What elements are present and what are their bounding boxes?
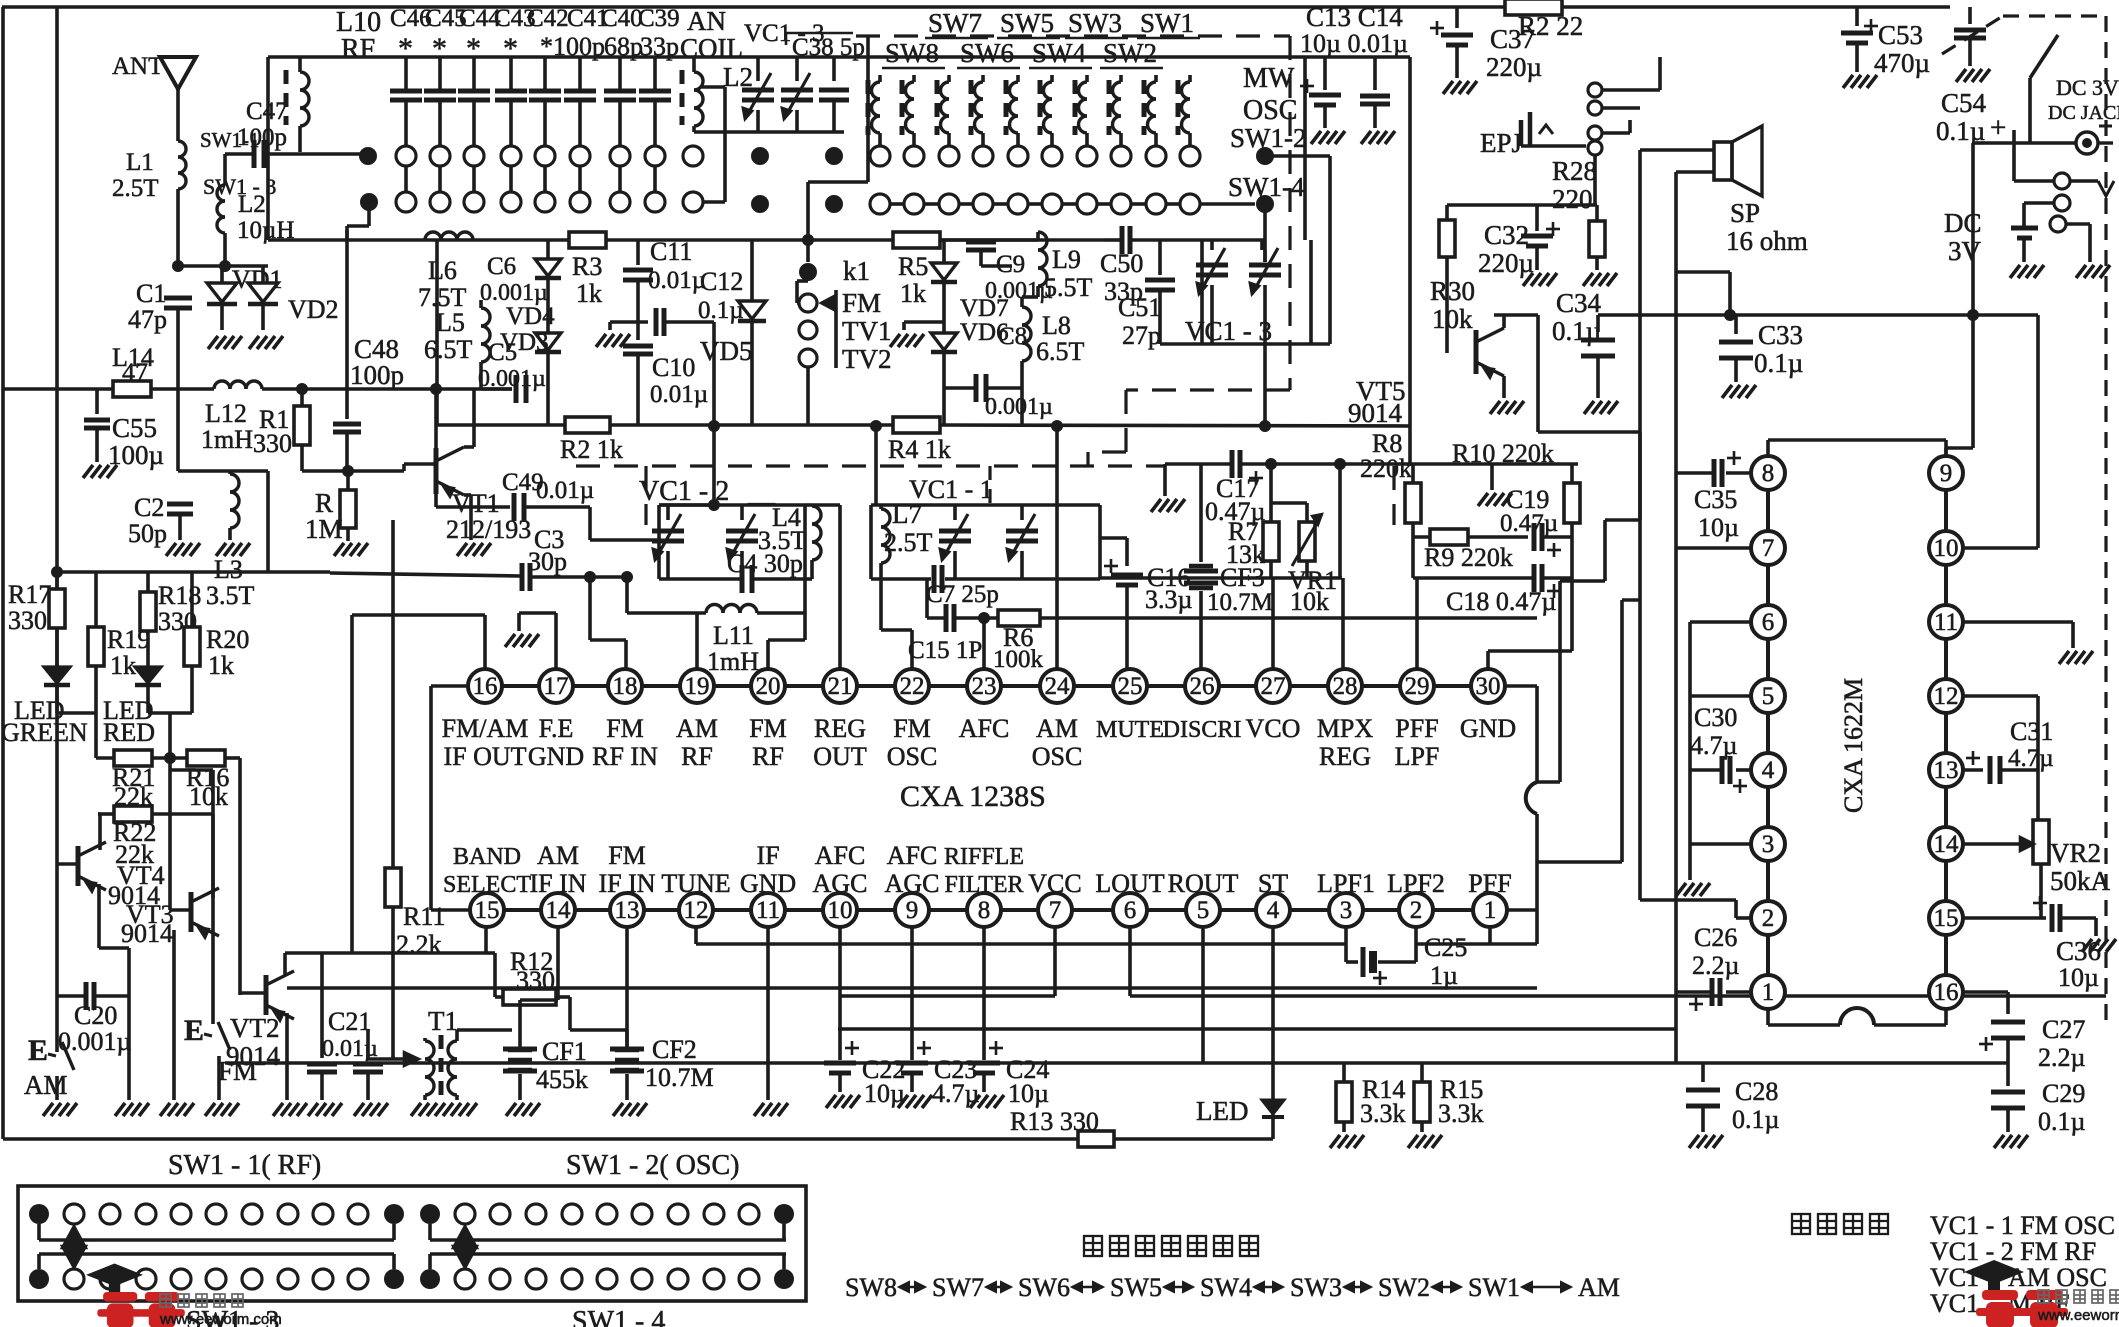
svg-text:3V: 3V [1948,236,1982,266]
svg-text:L8: L8 [1042,311,1071,340]
svg-text:BAND: BAND [453,844,521,870]
svg-text:0.01µ: 0.01µ [536,477,594,504]
capacitor C1 47p [164,296,192,301]
switch contact C42 row1 [535,146,555,166]
wire vc13 bottom [1160,342,1330,346]
svg-text:RF: RF [341,34,375,65]
wire switch box mid1a [39,1238,394,1242]
svg-text:TUNE: TUNE [661,869,730,898]
resistor R13 330 [1078,1131,1114,1147]
svg-text:13: 13 [615,897,640,924]
switch box contact r1c19 [668,1204,688,1224]
svg-text:IF IN: IF IN [598,869,655,898]
inductor SW7 coil [900,80,905,135]
switch box dot r2c22 [774,1269,794,1289]
svg-text:C20: C20 [74,1001,117,1030]
wire k1 arm line [834,290,838,368]
svg-text:SW2: SW2 [1378,1273,1430,1302]
ground C17 left [1163,464,1167,496]
switch box dot r2c11 [384,1269,404,1289]
capacitor C31 4.7u [1963,768,1983,772]
ground C53 [1843,75,1853,88]
wire y578 row [1100,576,1342,580]
svg-text:16: 16 [473,673,498,700]
svg-text:TV2: TV2 [842,344,892,374]
svg-text:SW4: SW4 [1032,38,1087,68]
svg-text:10k: 10k [1432,304,1473,334]
wire pin23 feed [982,618,986,669]
wire pin18 jog [588,577,592,640]
switch box dot r1c1 [29,1204,49,1224]
capacitor C35 10u [1726,471,1751,475]
svg-text:REG: REG [814,714,866,743]
node R7 top junction [1265,458,1277,470]
svg-text:GND: GND [740,869,796,898]
wire dashed step [1126,388,1290,391]
wire collector node down to C49 [434,389,438,449]
capacitor C44 [472,57,476,91]
node VT1 base junction [342,465,354,477]
svg-text:R10 220k: R10 220k [1452,439,1554,468]
resistor R4 1k [893,417,940,433]
watermark logo bottom-left [86,1264,185,1327]
svg-text:C11: C11 [650,237,692,266]
svg-text:15: 15 [1934,905,1959,932]
svg-text:GREEN: GREEN [1,718,88,747]
wire VC1-3 box [1200,240,1204,344]
wire pin13 drop [625,927,629,1047]
resistor R11 2.2k [385,868,401,907]
node junction antenna-VD [219,260,231,272]
wire k1 lever [797,279,808,283]
jack EPJ contacts [1588,101,1602,115]
wire C40 inter-row [618,166,622,192]
wire stub c1 [37,1224,41,1240]
switch box dot r2c1 [29,1269,49,1289]
ground C32 [1523,273,1533,286]
svg-text:0.01µ: 0.01µ [648,267,706,294]
switch box contact r1c4 [136,1204,156,1224]
wire pin29 feed [1415,578,1419,669]
wire left border [1,7,5,1139]
svg-text:R13 330: R13 330 [1010,1107,1099,1136]
wire L11 row [627,611,706,615]
wire C44 inter-row [472,166,476,192]
IC pin 27 [1256,669,1290,703]
svg-text:VD2: VD2 [288,295,339,324]
svg-text:10µ 0.01µ: 10µ 0.01µ [1300,29,1408,58]
wire R19 col down [94,713,98,758]
capacitor C17 0.47u [1230,450,1235,478]
ground battery [2010,265,2020,278]
svg-text:R28: R28 [1552,156,1597,186]
svg-text:10k: 10k [1290,587,1329,616]
transistor VT4 9014 [76,846,81,886]
wire jack c3 right [2066,222,2090,226]
node x1340 junction [1334,458,1346,470]
capacitor T1 input cap [366,1030,370,1058]
varcap VC1-1b [1020,505,1024,520]
wire pin19 feed [695,613,699,669]
svg-text:6.5T: 6.5T [424,335,473,364]
svg-text:LOUT: LOUT [1095,869,1164,898]
svg-text:16 ohm: 16 ohm [1726,226,1808,256]
svg-text:1: 1 [1762,979,1775,1006]
switch contact row2 [939,194,959,214]
svg-text:16: 16 [1934,979,1959,1006]
wire pin11 drop [766,927,770,1100]
svg-text:1mH: 1mH [707,647,759,676]
wire rail y205 [1447,203,1597,207]
capacitor C7 25p [932,565,937,593]
svg-text:3.3µ: 3.3µ [1145,585,1193,614]
wire pin12 drop [694,927,698,944]
inductor L14 47 (bead) [113,381,151,397]
svg-text:4: 4 [1762,757,1775,784]
resistor R14 3.3k [1342,1063,1346,1082]
switch contact C45 row2 [430,192,450,212]
resistor R28 220 body [1595,205,1599,221]
wire C39 inter-row [653,166,657,192]
svg-text:SW1-1: SW1-1 [200,128,260,152]
IC pin 6 (1622M) [1751,605,1785,639]
node VT1 rail junction [430,383,442,395]
switch box contact r1c2 [64,1204,84,1224]
wire long rail y1029 [838,1027,1676,1031]
svg-text:L1: L1 [126,149,154,176]
wire VT2 base [240,991,266,995]
ground C24 [970,1095,980,1108]
svg-text:AFC: AFC [887,841,938,870]
svg-text:FM: FM [749,714,787,743]
switch k1 TV2 contact [799,349,817,367]
svg-text:100k: 100k [993,646,1044,673]
ground VT3 emitter [160,1103,170,1116]
capacitor C43 [509,57,513,91]
ground VD1 [208,336,218,349]
switch box contact r1c17 [597,1204,617,1224]
svg-text:15: 15 [475,897,500,924]
svg-text:SW1 - 2( OSC): SW1 - 2( OSC) [566,1150,739,1181]
svg-text:www.eeworm.com: www.eeworm.com [159,1311,282,1327]
IC pin 15 (1622M) [1929,901,1963,935]
ground C36 [2082,939,2092,952]
wire pin6 drop [1128,927,1132,996]
wire VT4 base [57,862,78,866]
svg-text:0.01µ: 0.01µ [650,381,708,408]
svg-text:455k: 455k [536,1065,588,1094]
resistor R6 100k [998,610,1040,626]
switch contact C41 row2 [570,192,590,212]
capacitor C4 [740,565,745,593]
capacitor C23 4.7u [910,1055,914,1060]
switch contact C42 row2 [535,192,555,212]
svg-text:26: 26 [1190,673,1215,700]
svg-text:SW1 - 1( RF): SW1 - 1( RF) [168,1150,321,1181]
wire pin20 feed [803,613,807,640]
svg-text:68p: 68p [604,32,643,61]
wire pin5 drop [1201,927,1205,1063]
wire L11 left drop [625,577,629,613]
switch box contact r2c6 [206,1269,226,1289]
svg-text:CF2: CF2 [652,1035,697,1064]
svg-text:SP: SP [1730,198,1760,228]
capacitor C13 10u [1323,57,1327,90]
resistor R3 1k [569,232,606,248]
svg-text:50kA: 50kA [2050,866,2111,896]
wire VC1-2 left feed [659,503,714,507]
svg-text:IF OUT: IF OUT [443,742,526,771]
svg-text:0.001µ: 0.001µ [58,1027,132,1056]
switch contact row2 [1111,194,1131,214]
transformer T1 primary [425,1041,434,1059]
switch box contact r1c21 [739,1204,759,1224]
svg-text:GND: GND [528,742,584,771]
IC pin 28 [1328,669,1362,703]
node matrix dot r1c1 [751,147,769,165]
inductor SW5 coil [969,80,974,135]
wire SW1-2 to osc [1265,154,1330,158]
switch contact C44 row1 [464,146,484,166]
resistor R22 22k [98,812,114,816]
svg-text:C26: C26 [1694,923,1737,952]
wire top border bus [2,5,1950,9]
capacitor C10 0.01u [623,344,653,349]
IC pin 13 [610,893,644,927]
inductor SW4 coil [1004,80,1009,135]
svg-text:AGC: AGC [813,869,868,898]
ground C2 [166,543,176,556]
wire R1 bottom to base node [302,469,348,473]
svg-text:R30: R30 [1430,276,1475,306]
wire y618 left end [925,579,929,618]
svg-text:10: 10 [828,897,853,924]
diode VD2 [261,266,265,282]
svg-text:17: 17 [544,673,569,700]
wire pin27 feed [1271,578,1275,669]
wire SW1-4 down [1263,204,1267,262]
svg-text:2: 2 [1762,905,1775,932]
wire pin16 feed [483,615,487,669]
svg-text:SW1: SW1 [1140,8,1194,38]
svg-text:L3: L3 [214,555,243,584]
svg-text:ST: ST [1258,869,1288,898]
wire x1640 bus [1638,150,1642,900]
svg-text:IF: IF [756,841,779,870]
ground R28 [1583,273,1593,286]
svg-text:C7 25p: C7 25p [926,581,999,608]
inductor MW osc coil1 [1142,80,1147,135]
ground T1 input cap [354,1103,364,1116]
switch box contact r2c16 [562,1269,582,1289]
ground CF2 [613,1103,623,1116]
switch contact C39 row2 [645,192,665,212]
wire vc13 top link [1260,240,1264,250]
switch contact SW7 row1 [904,146,924,166]
wire rail y462 [1340,462,1578,466]
svg-text:k1: k1 [843,256,870,286]
svg-text:220k: 220k [1360,454,1412,483]
svg-text:*: * [466,32,481,65]
varcap VC1-3a [756,57,760,81]
capacitor C21 0.01u (left cap) [320,953,324,1058]
svg-text:7: 7 [1049,897,1062,924]
transistor VT3 9014 [189,892,194,932]
resistor R8 220k [1411,464,1415,483]
svg-text:AN: AN [687,6,726,36]
svg-text:50p: 50p [128,519,167,548]
IC pin 19 [680,669,714,703]
capacitor C27 2.2u [2006,992,2010,1014]
svg-text:C50: C50 [1100,249,1143,278]
node SW1-1 contact [359,147,377,165]
wire pin1 drop [1488,927,1492,944]
svg-text:FM: FM [608,841,646,870]
wire pin2 drop [1414,927,1418,944]
svg-text:FM/AM: FM/AM [442,714,529,743]
node R21-R16 junction [164,752,176,764]
svg-text:VD7: VD7 [960,295,1009,322]
svg-text:VC1 - 1 FM OSC: VC1 - 1 FM OSC [1930,1211,2115,1240]
capacitor C26 2.2u [1726,990,1751,994]
svg-text:CXA 1238S: CXA 1238S [900,780,1046,813]
wire x268 down to LED rail [266,471,270,572]
wire epj contact3 [1593,155,1597,205]
svg-text:C30: C30 [1694,703,1737,732]
ground C21 [308,1103,318,1116]
IC pin 1 [1473,893,1507,927]
switch box contact r2c2 [64,1269,84,1289]
svg-text:12: 12 [1934,683,1959,710]
svg-text:C55: C55 [112,413,157,443]
svg-text:ANT: ANT [112,53,163,80]
svg-text:MUTE: MUTE [1096,717,1164,743]
wire VT1 collector [464,445,474,449]
wire C43 inter-row [509,166,513,192]
wire k1 feed from matrix [866,36,870,182]
capacitor C54 0.1u [1968,7,1972,24]
transistor VT5 9014 [1474,330,1479,374]
svg-text:10µ: 10µ [1008,1079,1049,1108]
wire c16 top [1100,536,1127,540]
wire LED green bottom [57,711,96,715]
svg-text:TV1: TV1 [842,316,892,346]
wire pin15 drop [484,925,488,953]
capacitor C20 0.001u [57,994,84,998]
switch k1 TV1 contact [799,321,817,339]
node R1 rail junction [296,383,308,395]
IC pin 26 [1185,669,1219,703]
wire pin21 feed [838,505,842,669]
svg-text:24: 24 [1045,673,1071,700]
inductor AN coil [680,70,685,125]
wire pin16 link [1963,990,2008,994]
wire SW1-3 drop [367,202,371,226]
IC pin 25 [1113,669,1147,703]
wire rail y315 [1494,313,1538,317]
node VC1-2 feed [708,499,720,511]
wire vcc row [840,994,1055,998]
svg-text:DC 3V: DC 3V [2056,75,2119,100]
svg-text:FM: FM [893,714,931,743]
watermark logo bottom-right [1964,1260,2068,1327]
switch contact C40 row2 [610,192,630,212]
wire VD row to L3 [178,469,268,473]
switch box contact r2c3 [100,1269,120,1289]
node matrix dot r2c2 [825,195,843,213]
svg-text:SW1 - 4: SW1 - 4 [572,1306,665,1327]
wire VT2 collector [283,953,287,975]
wire power sw down [2028,78,2032,143]
ground C37 [1443,81,1453,94]
switch box triangle up c13 [453,1226,477,1248]
IC pin 21 [823,669,857,703]
svg-text:27: 27 [1261,673,1286,700]
svg-text:T1: T1 [428,1006,458,1036]
inductor SW3 coil [1038,80,1043,135]
svg-text:C1: C1 [136,279,166,308]
svg-text:0.001µ: 0.001µ [985,394,1053,420]
switch contact SW5 row1 [973,146,993,166]
switch contact SW8 row1 [870,146,890,166]
wire x1410 down [1408,57,1412,464]
jack contact 3 [2050,216,2066,232]
svg-text:C21: C21 [328,1007,371,1036]
svg-text:VCC: VCC [1028,869,1081,898]
ground T1 primary [411,1103,421,1116]
svg-text:SW5: SW5 [1110,1273,1162,1302]
wire L7 box feed [874,426,878,505]
resistor R1 330 [300,389,304,406]
svg-text:23: 23 [972,673,997,700]
diode LED RED [135,667,161,683]
svg-text:AGC: AGC [885,869,940,898]
svg-text:L9: L9 [1052,245,1081,274]
capacitor C49 0.01u [512,493,517,521]
diode VD5 [750,240,754,300]
svg-text:4.7µ: 4.7µ [2008,745,2054,772]
svg-text:SELECT: SELECT [443,872,531,898]
capacitor C38 5p [832,57,836,81]
svg-text:2.2k: 2.2k [396,930,442,959]
switch contact mw row1 [1146,146,1166,166]
switch contact C46 row1 [396,146,416,166]
svg-text:6: 6 [1124,897,1137,924]
svg-text:3.5T: 3.5T [206,581,255,610]
inductor L8 6.5T [1022,307,1031,325]
wire main rail y389 [3,387,113,391]
svg-text:MW: MW [1243,63,1295,94]
capacitor C14 0.01u [1373,57,1377,90]
svg-text:FM: FM [606,714,644,743]
svg-text:10µ: 10µ [864,1079,905,1108]
svg-text:SW8: SW8 [885,38,939,68]
svg-text:47p: 47p [128,305,167,334]
inductor SW2 coil [1073,80,1078,135]
node matrix dot r1c2 [825,147,843,165]
svg-text:OSC: OSC [887,742,938,771]
svg-text:13k: 13k [1226,540,1265,569]
wire VD3 bottom [546,371,550,425]
svg-text:11: 11 [756,897,780,924]
svg-text:C35: C35 [1694,485,1737,514]
svg-text:1k: 1k [576,279,602,308]
svg-text:FILTER: FILTER [944,872,1023,898]
resistor R12 330 [486,951,495,955]
IC pin 22 [895,669,929,703]
switch box dot r1c12 [420,1204,440,1224]
wire pin11 link [1963,620,2073,624]
